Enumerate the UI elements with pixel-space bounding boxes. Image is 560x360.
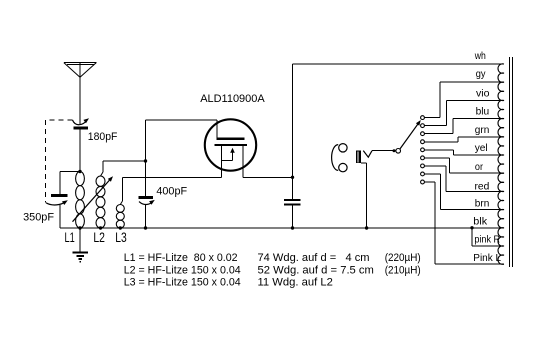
svg-text:(210µH): (210µH) bbox=[385, 264, 421, 276]
svg-text:wh: wh bbox=[474, 51, 486, 62]
svg-text:L2 = HF-Litze 150 x 0.04: L2 = HF-Litze 150 x 0.04 bbox=[124, 264, 241, 276]
svg-text:L3 = HF-Litze 150 x 0.04: L3 = HF-Litze 150 x 0.04 bbox=[124, 277, 241, 289]
svg-text:brn: brn bbox=[475, 199, 490, 210]
svg-text:L1: L1 bbox=[65, 230, 75, 245]
svg-text:or: or bbox=[475, 162, 484, 173]
svg-text:L3: L3 bbox=[115, 230, 127, 245]
svg-text:grn: grn bbox=[475, 125, 490, 136]
svg-text:blk: blk bbox=[473, 216, 488, 227]
svg-text:180pF: 180pF bbox=[88, 131, 118, 143]
svg-text:L2: L2 bbox=[93, 230, 105, 245]
svg-text:11 Wdg. auf L2: 11 Wdg. auf L2 bbox=[258, 277, 333, 289]
svg-text:yel: yel bbox=[475, 143, 488, 154]
svg-text:blu: blu bbox=[476, 107, 490, 118]
svg-text:350pF: 350pF bbox=[23, 212, 54, 224]
svg-text:74 Wdg. auf d = 4 cm: 74 Wdg. auf d = 4 cm bbox=[258, 252, 370, 264]
svg-text:52 Wdg. auf d = 7.5 cm: 52 Wdg. auf d = 7.5 cm bbox=[258, 264, 374, 276]
svg-text:red: red bbox=[475, 182, 490, 193]
svg-text:L1 = HF-Litze 80 x 0.02: L1 = HF-Litze 80 x 0.02 bbox=[124, 252, 238, 264]
svg-text:pink R: pink R bbox=[474, 234, 500, 245]
svg-text:vio: vio bbox=[476, 89, 490, 100]
svg-text:gy: gy bbox=[476, 69, 486, 80]
svg-text:400pF: 400pF bbox=[156, 185, 187, 197]
svg-text:ALD110900A: ALD110900A bbox=[200, 93, 265, 105]
svg-text:(220µH): (220µH) bbox=[385, 252, 421, 264]
svg-text:Pink L: Pink L bbox=[473, 253, 501, 264]
